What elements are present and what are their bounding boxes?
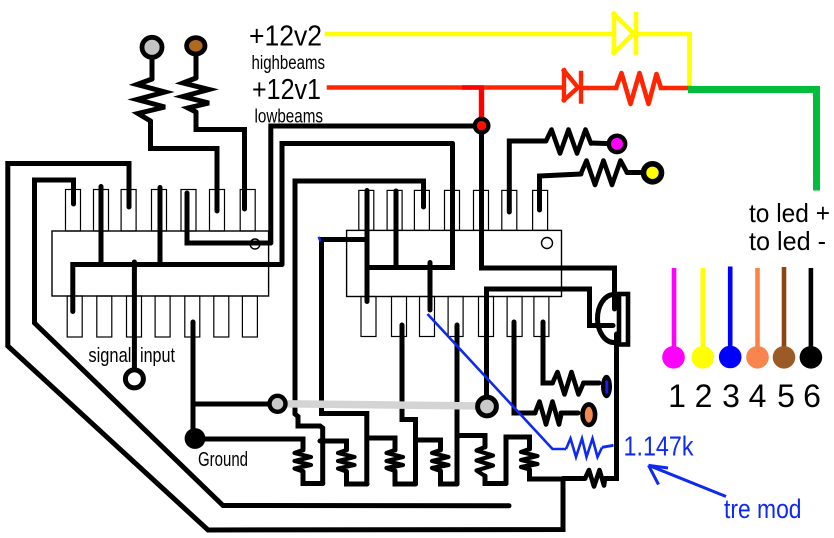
terminal gray bulb [142,37,162,57]
wire second loop: U1 top pin1 to left, down, diagonal, bottom bus y=503.5, riser to node X [35,180,510,506]
wire R5 bottom to V5 x=506 [485,476,506,484]
terminal signal input (open circle) [125,370,143,388]
IC U1 bottom pins [67,296,257,337]
wire red junction drop (brighter red) [462,85,484,90]
wire U2 bus stub down to bottom pin3 (tre mod node) [428,263,433,311]
IC U2 pin-1 indicator circle [542,238,553,249]
terminal gray left [270,396,286,412]
svg-text:tre mod: tre mod [724,494,802,524]
wire pin3 blue [728,267,733,348]
wire stem of gray bulb [150,56,155,79]
wire node X to R7 left [563,476,585,481]
resistor R5 [477,447,494,476]
wire pin4 orange [755,268,760,347]
svg-text:input: input [140,344,175,367]
wire R2 top branch from x=322.7 [320,441,347,450]
ladder resistors [295,447,538,476]
wire R3 top branch from x=367 [367,438,395,450]
wire right gray terminal up and over to transistor left lead [487,289,614,396]
wire V2: branch from U2 pin1 wire at y=239.5 left, down, jog to x=367, down to R2 bottom [322,240,368,485]
wire R magenta right lead to magenta terminal [591,141,606,147]
transistor Q1 bar rectangle [619,294,628,345]
wire pin1 magenta [672,268,677,347]
wire pin6 black [809,268,814,347]
terminal brown bulb [187,38,205,54]
blue tick at V2 corner [319,237,321,242]
wire V3 from U2 bottom pin2, jog, down [402,325,416,484]
svg-text:to led +: to led + [749,198,830,228]
svg-text:signal: signal [88,344,131,367]
terminal orange [583,404,596,425]
IC U2 top pins [359,190,548,230]
svg-text:+12v1: +12v1 [252,74,321,106]
wire x=282: U2 top pin4 feed, y=143.5, down to U1 bus right end [282,144,453,265]
wire R yellow right lead to yellow terminal [627,170,640,175]
transistor Q1 arc [597,295,614,343]
diode D2 (red) [564,71,581,102]
wire R6 bottom to node X riser [530,470,564,480]
svg-text:lowbeams: lowbeams [255,107,324,128]
wire R5 top branch from V4 [457,436,485,448]
resistor R-blueterm (horizontal) [553,372,584,395]
wire U2 top pin6 up to R magenta [509,141,546,212]
svg-text:3: 3 [722,378,740,414]
terminal blue-black [601,375,612,399]
power rail +12v1 (red) [329,85,689,90]
IC U2 bottom pins [361,297,549,337]
wire x=273.5: red-dot horizontal y=126 down to y=242 [271,126,474,243]
wire R4 top branch from V3 [416,440,441,450]
wire R orange right lead to orange terminal [561,411,578,416]
wire U2 bottom pin6 to R orange [514,322,535,413]
wire R2 bottom to x=367 [347,472,368,485]
resistor R-red (on +12v1 rail) [616,73,661,104]
wire R7 right to transistor bottom lead [605,334,617,479]
IC U1 body [52,231,269,296]
wire U2 top pin7 up to R yellow [540,174,582,210]
svg-text:4: 4 [749,378,767,414]
resistor R4 [432,450,449,471]
wire R-brown to U1 top pin7 [196,112,245,209]
wire green to led [688,90,817,191]
resistor R-yellow (horizontal) [581,161,627,186]
wire U1 internal bus y=264.5 with stub to bottom pin1 [73,265,282,312]
wire blue lead to label [602,445,614,447]
resistor R-mod (blue 1.147k) [566,439,602,458]
wire R4 bottom to V4 x=457 [441,471,458,484]
svg-text:5: 5 [777,378,795,414]
wire outer loop: U1 top pin3 to left edge, down, diagonal, bottom bus y=528 [8,164,563,531]
resistor R-orange (horizontal) [535,402,562,425]
wire branch to left gray terminal y=404 [193,402,269,407]
resistor R7 (bottom right horizontal) [585,470,605,487]
node red junction dot [475,119,489,133]
terminal yellow [644,164,662,182]
wire U1 top pin2 stub to bus [99,187,104,265]
svg-text:6: 6 [803,378,821,414]
resistor R3 [387,450,404,471]
wire ground dot to R1 top [203,439,303,450]
arrow tre mod [649,465,727,496]
wire U2 bottom pin7 to R blue-ellipse [543,322,553,383]
wire U1 top pin4 stub to bus [158,188,163,265]
resistor R-gray (from gray bulb) [137,79,165,121]
power rail +12v2 (yellow) [327,34,690,86]
gray bus bar between gray terminals [280,404,482,406]
wire U2 top pin2 stub to bus [394,191,399,268]
wire R-gray to U1 top pin6 [151,121,218,211]
IC U1 pin-1 indicator circle [250,239,260,249]
terminal gray right [478,397,497,416]
IC U2 body [347,230,562,296]
svg-text:+12v2: +12v2 [249,21,322,53]
wire red-dot node down through U2 pin5 to transistor top lead [482,130,615,309]
blue annotation pointer line (to tre mod node) [428,314,567,449]
wire U2 top pin1 through body to bus [365,191,370,268]
wire pin5 brown [782,267,787,347]
resistor R2 [338,450,355,472]
resistor R-magenta (horizontal) [546,130,591,154]
svg-text:1.147k: 1.147k [624,431,695,462]
labels 1-6 [668,378,821,414]
resistor R-brown (from brown bulb) [183,78,209,112]
wire R blue-ellipse right lead to terminal [584,381,600,386]
wire R1 bottom to x=322.7 [303,472,323,484]
terminal ground (filled dot) [185,428,206,449]
resistor R6 [521,449,538,470]
wire ground vertical from U1 bottom pin5 to ground dot [191,322,196,430]
wire U2 pin4 top through body to internal bus y=267.5 with stub down to bottom pin1 [367,144,453,302]
svg-text:highbeams: highbeams [252,53,326,74]
svg-text:2: 2 [695,378,713,414]
svg-text:Ground: Ground [198,448,248,471]
wire V4 from U2 bottom pin4 down [455,325,460,484]
svg-text:1: 1 [668,378,686,414]
wire V5 and R6 top branch [506,437,530,484]
wire U2 top pin3 bridge to x=293, down, jog to x=322.7, down to R1 bottom junction [295,181,424,484]
wire U1 top pin5 to vertical x=273.5 [187,193,271,243]
IC U1 top pins [66,190,256,232]
wire R3 bottom to V3 x=415.5 [395,471,416,484]
diode D1 (yellow) [614,14,636,53]
wire pin2 yellow [700,268,705,347]
svg-text:to led -: to led - [749,226,826,256]
terminal magenta [609,136,625,152]
resistor R1 [295,450,312,472]
wire signal input: from bus down to terminal circle [132,262,137,368]
wire stem of brown bulb [194,54,199,78]
